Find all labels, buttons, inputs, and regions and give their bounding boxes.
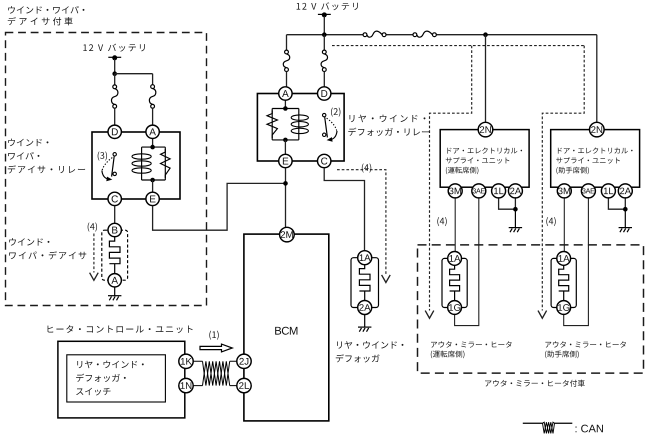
wire: passenger 3M to mirror 1A <box>563 198 565 252</box>
relay pin D <box>108 125 121 138</box>
relay pin E (middle) <box>279 154 292 167</box>
relay switch motion arrow (middle) <box>330 131 337 140</box>
arrowhead (4) left <box>90 273 99 281</box>
label: door electrical supply unit (passenger) line2 <box>556 157 620 164</box>
wire: fuse to relay pin D (middle) <box>323 72 325 88</box>
wire: fuse1 to relay pin D <box>114 108 116 125</box>
dashed route (4) middle <box>337 170 386 275</box>
dashed route (4) left arrow <box>93 234 95 273</box>
label: door electrical supply unit (driver) line3 <box>446 167 479 175</box>
fusible link (left branch 2) <box>149 85 155 109</box>
door unit (passenger) pin 2A <box>618 184 632 198</box>
door unit (driver) pin 1L <box>492 184 506 198</box>
label: window wiper deicer line2 <box>9 251 86 259</box>
dashed enclosure: window wiper deicer equipped vehicles <box>6 33 207 306</box>
label (3) <box>98 151 107 160</box>
relay pin A <box>146 125 159 138</box>
label: window wiper deicer equipped vehicles line1 <box>8 6 84 14</box>
label: heater control unit <box>48 325 193 333</box>
wire: battery down to junction (left) <box>114 59 116 74</box>
wire: left branch to fuse <box>114 74 116 85</box>
junction: bus / left door unit drop <box>483 32 488 37</box>
label: rear window defogger relay line1 <box>349 115 425 123</box>
junction: driver 1L/2A <box>513 207 518 212</box>
label: outer mirror heater (driver) line1 <box>431 341 512 347</box>
mirror heater (driver) pin 1G <box>448 301 462 315</box>
label: window wiper deicer relay line2 <box>8 152 39 160</box>
wire: passenger 1L to ground junction <box>608 198 625 209</box>
arrowhead (4) right mirror <box>538 311 547 319</box>
relay pin C (middle) <box>318 154 331 167</box>
rear window defogger element outline <box>351 258 379 308</box>
ground (rear window defogger) <box>358 315 371 332</box>
wire: bus junction down to left 2N <box>485 35 487 123</box>
ground (driver door unit) <box>509 209 522 232</box>
node: coil branch bottom (middle) <box>283 138 288 143</box>
BCM box <box>244 234 329 421</box>
label: rear window defogger line2 <box>336 354 380 362</box>
coil branch frame (middle) <box>272 109 299 140</box>
wire: left relay E to middle node <box>153 183 286 230</box>
deicer pin B <box>108 223 121 236</box>
wiper deicer element dashed outline <box>102 230 128 280</box>
coil branch frame <box>142 147 166 180</box>
wire: bus left end down <box>286 35 288 50</box>
label: window wiper deicer equipped vehicles line2 <box>8 17 73 25</box>
heater control pin 1K <box>179 354 193 368</box>
wire: driver 1L to ground junction <box>499 198 516 209</box>
label: outer mirror heater (passenger) line2 <box>545 351 579 359</box>
battery feed terminal (left) <box>108 56 121 58</box>
dashed CAN route: horizontal from BCM area <box>332 45 584 47</box>
defogger pin 2A <box>358 301 372 315</box>
door unit (driver) pin 2N <box>478 122 493 137</box>
ground (wiper deicer) <box>108 287 121 300</box>
fusible link (left branch 1) <box>111 85 117 108</box>
relay switch blade (middle) <box>325 117 328 137</box>
label: door electrical supply unit (driver) line2 <box>446 157 510 164</box>
CAN twisted pair wire 1 (1K to 2J) <box>193 361 237 385</box>
relay pin C <box>108 192 121 205</box>
wire: bus right end down to right 2N <box>596 35 598 123</box>
label: rear window defogger switch line2 <box>76 374 126 382</box>
door electrical supply unit box (driver side) <box>440 130 529 188</box>
fusible link (bus, left) <box>363 31 386 37</box>
outer mirror heater element (driver) <box>450 265 460 301</box>
relay pin E <box>146 192 159 205</box>
BCM pin 2L <box>237 378 251 392</box>
ground (passenger door unit) <box>619 209 632 232</box>
wire: driver 3M to mirror 1A <box>454 198 456 252</box>
label: window wiper deicer relay line3 <box>8 165 85 173</box>
label: rear window defogger switch line3 <box>76 388 110 396</box>
relay coil (left branch) <box>132 154 151 159</box>
door unit (passenger) pin 3M <box>557 184 571 198</box>
arrowhead (4) middle <box>382 275 391 283</box>
battery feed terminal (top) <box>318 13 331 15</box>
label BCM <box>275 327 297 335</box>
label (4) right mirror <box>546 217 555 226</box>
relay switch contact bottom (middle) <box>323 133 326 136</box>
relay pin A (middle) <box>279 87 292 100</box>
wire: branch bus to right fuse (left) <box>115 73 153 75</box>
wire: driver 2A to ground <box>514 198 516 209</box>
rear window defogger heater element <box>359 264 370 300</box>
wire: coil branch to pin E (middle) <box>284 140 286 155</box>
heater control unit box <box>58 341 185 418</box>
CAN twisted pair wire 2 (1N to 2L) <box>193 361 237 385</box>
relay switch contact (bottom, pin C side) <box>113 172 116 175</box>
wire: pin A to coil branch <box>152 138 154 147</box>
window wiper deicer relay box <box>92 132 180 199</box>
door unit (passenger) pin 3AE <box>581 184 595 198</box>
wire: middle relay E down to BCM 2M <box>285 168 287 228</box>
wire: bus to branch D <box>323 35 325 50</box>
mirror heater (passenger) pin 1G <box>557 301 571 315</box>
door unit (passenger) pin 1L <box>601 184 615 198</box>
label: window wiper deicer line1 <box>9 238 49 246</box>
arrowhead (4) left mirror <box>425 311 434 319</box>
wire: battery to main bus <box>323 16 325 35</box>
junction node (left battery) <box>112 71 117 76</box>
label (2) <box>331 108 340 117</box>
outer mirror heater element (passenger) <box>559 265 569 301</box>
relay pin D (middle) <box>318 87 331 100</box>
junction: passenger 1L/2A <box>623 207 628 212</box>
label: outer mirror heater (driver) line2 <box>431 351 465 359</box>
main supply bus <box>287 34 597 36</box>
defogger pin 1A <box>358 251 372 265</box>
node: coil branch bottom <box>150 178 155 183</box>
label: door electrical supply unit (passenger) line3 <box>556 167 589 175</box>
door unit (driver) pin 3M <box>448 184 462 198</box>
relay switch contact (top, pin D side) <box>113 153 116 156</box>
label (4) left <box>88 222 97 231</box>
rear window defogger relay box <box>257 94 344 162</box>
label: rear window defogger relay line2 <box>348 128 429 136</box>
label: 12V battery (top) <box>297 2 358 10</box>
relay resistor (right branch) <box>161 149 171 178</box>
dashed CAN route: drop to left door unit region <box>430 46 472 311</box>
label (1) <box>209 331 218 340</box>
fusible link (branch D) <box>321 50 327 71</box>
wire: pin A to coil branch (middle) <box>284 100 286 109</box>
label (4) middle <box>362 163 371 172</box>
wire: coil branch to pin E <box>152 180 154 192</box>
BCM pin 2J <box>237 354 251 368</box>
label: door electrical supply unit (driver) line1 <box>447 147 522 153</box>
BCM pin 2M <box>280 227 295 242</box>
outer mirror heater element outline (driver) <box>442 258 467 307</box>
relay switch motion arrow <box>102 171 109 180</box>
dashed CAN route: drop to right door unit region <box>542 46 584 311</box>
label: window wiper deicer relay line1 <box>8 139 48 147</box>
label : CAN <box>576 425 603 433</box>
relay switch blade <box>112 156 115 176</box>
node: coil branch top <box>150 145 155 150</box>
rear window defogger switch box <box>67 355 166 402</box>
label: rear window defogger switch line1 <box>77 361 143 369</box>
relay switch contact top (middle) <box>323 113 326 116</box>
label: door electrical supply unit (passenger) line1 <box>558 147 633 153</box>
junction: bus / middle branch <box>322 32 327 37</box>
label: 12V battery (left) <box>83 44 145 52</box>
deicer pin A <box>108 274 121 287</box>
door unit (passenger) pin 2N <box>590 122 605 137</box>
label: outer mirror heater equipped vehicles <box>485 380 585 387</box>
node: coil branch top (middle) <box>283 106 288 111</box>
mirror heater (driver) pin 1A <box>448 252 462 266</box>
relay switch motion arc (dotted) <box>102 158 112 172</box>
relay coil (middle, right branch) <box>291 115 308 120</box>
wire: driver 3AE to mirror 1G loop <box>455 198 479 326</box>
outer mirror heater element outline (passenger) <box>551 258 576 307</box>
fusible link (bus, right) <box>413 31 436 37</box>
door unit (driver) pin 3AE <box>472 184 486 198</box>
wire: passenger 2A to ground <box>624 198 626 209</box>
heater control pin 1N <box>179 378 193 392</box>
dashed enclosure: outer mirror heater equipped vehicles <box>418 245 644 373</box>
wire: relay C to deicer B <box>114 206 116 224</box>
wire: fuse2 to relay pin A <box>152 108 154 125</box>
label: outer mirror heater (passenger) line1 <box>545 341 626 347</box>
wire: passenger 3AE to mirror 1G loop <box>564 198 589 326</box>
wire: right branch to fuse <box>152 74 154 85</box>
wiper deicer heater element <box>109 237 120 274</box>
relay switch motion arc (middle, dotted) <box>327 118 337 132</box>
relay resistor (middle, left branch) <box>267 111 277 139</box>
wire: fuse to relay pin A (middle) <box>286 72 288 88</box>
mirror heater (passenger) pin 1A <box>557 252 571 266</box>
junction: E wire / left feed <box>283 181 288 186</box>
CAN legend symbol <box>523 422 573 433</box>
label: rear window defogger line1 <box>337 341 403 349</box>
wire: middle relay C to defogger <box>324 168 364 251</box>
door unit (driver) pin 2A <box>508 184 522 198</box>
door electrical supply unit box (passenger side) <box>551 130 640 188</box>
label (4) left mirror <box>437 217 446 226</box>
block arrow (1) <box>200 344 232 352</box>
fusible link (branch A) <box>283 50 289 71</box>
